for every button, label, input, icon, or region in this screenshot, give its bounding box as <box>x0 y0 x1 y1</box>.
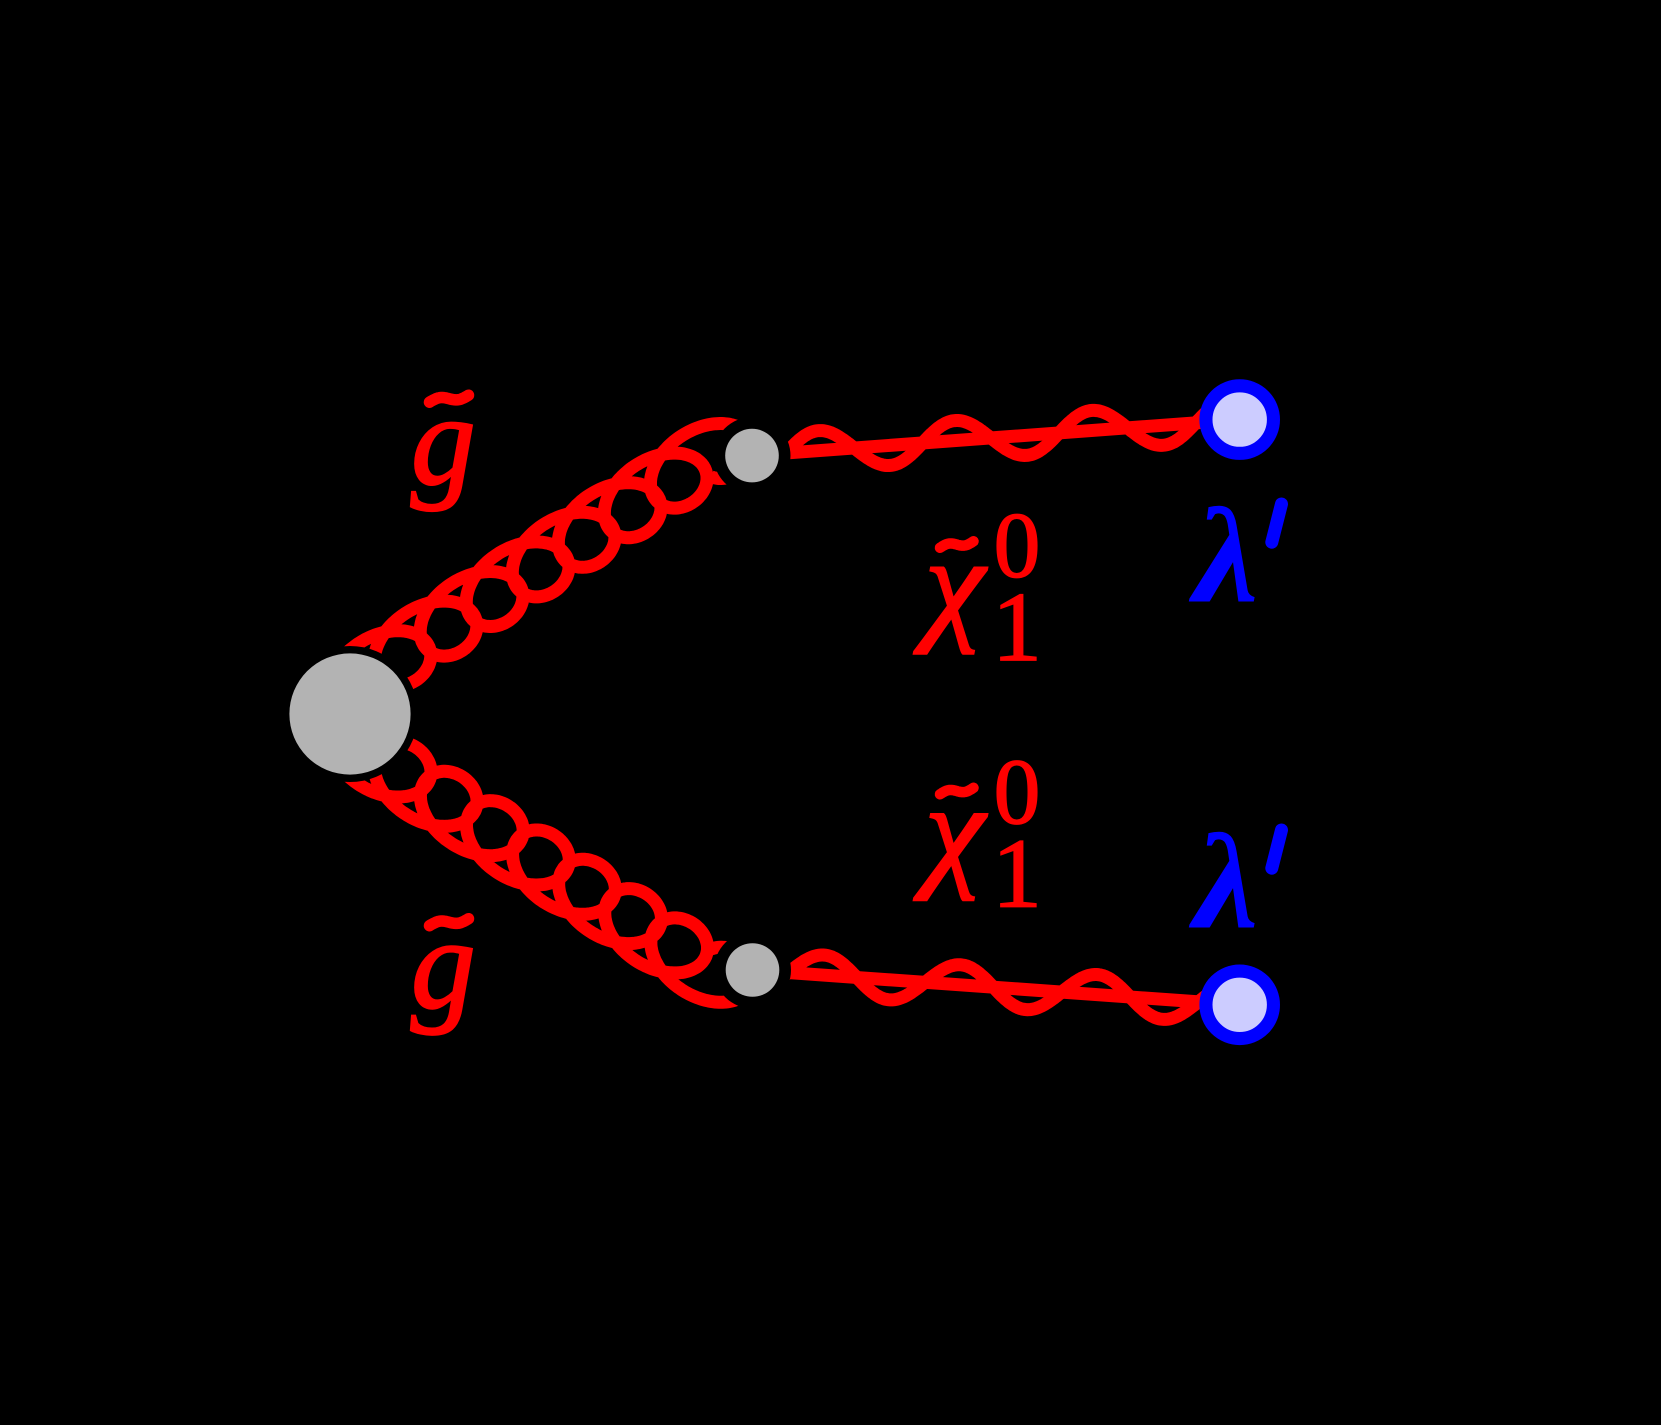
svg-text:λ: λ <box>1189 807 1259 958</box>
neutralino wavy line upper <box>784 408 1212 466</box>
production blob node <box>282 646 418 782</box>
decay vertex upper <box>714 417 791 494</box>
RPV endpoint lower <box>1206 971 1274 1039</box>
svg-text:g: g <box>411 369 476 512</box>
label neutralino (chi-tilde 1 0) lower <box>913 759 987 901</box>
neutralino wavy line lower <box>784 955 1214 1019</box>
svg-text:χ: χ <box>913 513 987 655</box>
RPV endpoint upper <box>1206 386 1274 454</box>
gluon curl lower (gluino line) <box>328 713 753 1003</box>
svg-text:1: 1 <box>992 573 1042 682</box>
label lambda-prime coupling upper <box>1189 481 1259 632</box>
decay vertex lower <box>714 932 791 1009</box>
svg-text:λ: λ <box>1189 481 1259 632</box>
gluon curl upper (gluino line) <box>328 424 753 716</box>
svg-text:1: 1 <box>992 820 1042 929</box>
svg-text:χ: χ <box>913 759 987 901</box>
label lambda-prime coupling lower <box>1189 807 1259 958</box>
label neutralino (chi-tilde 1 0) upper <box>913 513 987 655</box>
